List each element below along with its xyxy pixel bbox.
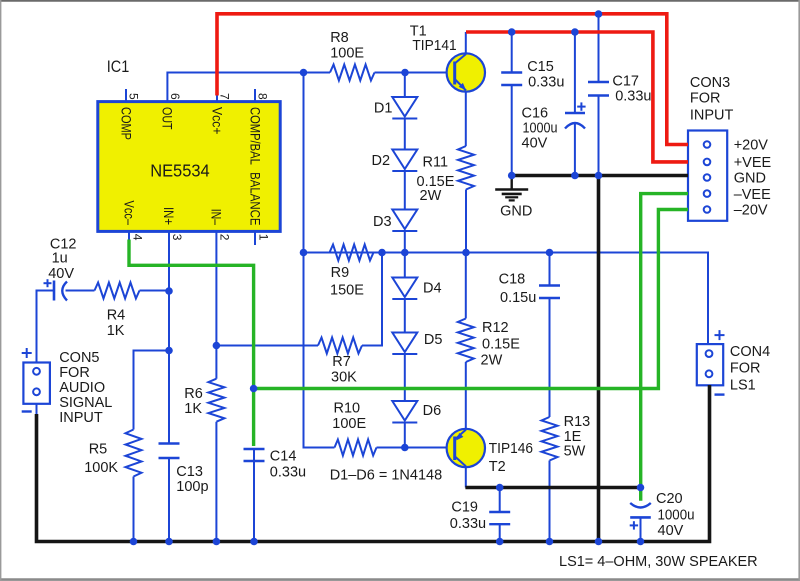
- svg-text:R10: R10: [334, 401, 361, 417]
- wire output rail to R12: [465, 253, 467, 319]
- svg-text:T1: T1: [410, 23, 427, 39]
- resistor R7 30K: [318, 338, 362, 386]
- wire R12 to T2 emitter: [465, 362, 467, 429]
- wire bottom ground bus from CON5 to CON4: [37, 385, 710, 542]
- svg-text:+VEE: +VEE: [734, 155, 772, 171]
- wire CON5 minus stub: [36, 404, 38, 416]
- node C17 +20V junction: [595, 10, 603, 18]
- wire T1 emitter down to R11: [465, 91, 467, 147]
- svg-text:INPUT: INPUT: [690, 108, 734, 124]
- wire T1 base node to D1: [404, 73, 406, 98]
- svg-text:40V: 40V: [522, 136, 548, 152]
- node rail left junction: [300, 249, 308, 257]
- wire D4 to D5: [404, 299, 406, 333]
- node C19 -VEE junction: [496, 484, 504, 492]
- capacitor C15 0.33u: [501, 59, 564, 91]
- wire R7 up to output rail: [362, 253, 382, 346]
- svg-text:CON5: CON5: [59, 350, 99, 366]
- wire R5 branch from pin3 node: [134, 351, 170, 430]
- node R7 rail junction: [378, 249, 386, 257]
- frame: [0, 0, 800, 2]
- svg-text:LS1= 4–OHM, 30W SPEAKER: LS1= 4–OHM, 30W SPEAKER: [559, 554, 758, 570]
- wire C15 to ground node: [511, 85, 513, 176]
- wire ground bus from C15 node to CON3 GND: [512, 174, 688, 178]
- wire R5 to bottom bus: [133, 477, 135, 542]
- resistor R11 0.15E 2W: [417, 146, 475, 204]
- svg-text:IC1: IC1: [107, 57, 130, 76]
- wire D2 to D3: [404, 171, 406, 210]
- svg-text:R8: R8: [330, 30, 349, 46]
- resistor R6 1K: [184, 379, 224, 422]
- svg-text:100E: 100E: [332, 416, 366, 432]
- svg-text:100E: 100E: [330, 46, 364, 62]
- wire C16 to ground bus: [574, 123, 576, 176]
- node R5 bottom bus junction: [130, 538, 138, 546]
- ground GND symbol: [495, 176, 532, 220]
- wire green -VEE from CON3 down to C20: [641, 194, 688, 501]
- wire D1 to D2: [404, 119, 406, 150]
- wire R7 branch from pin2 node: [216, 345, 318, 347]
- svg-text:0.33u: 0.33u: [615, 89, 651, 105]
- node T2 base junction: [401, 444, 409, 452]
- wire C14 to bottom bus: [253, 449, 255, 542]
- wire pin1 stub: [254, 231, 256, 245]
- node C16 ground junction: [571, 172, 579, 180]
- wire pin2 down to R6: [215, 231, 217, 378]
- svg-text:C18: C18: [499, 272, 526, 288]
- svg-text:D6: D6: [423, 403, 442, 419]
- svg-text:AUDIO: AUDIO: [59, 380, 105, 396]
- svg-text:5: 5: [127, 93, 141, 100]
- svg-text:GND: GND: [734, 171, 766, 187]
- capacitor C18 0.15u: [499, 272, 560, 307]
- wire ground vertical from GND bus down to bottom bus: [597, 174, 601, 542]
- wire pin4 stub: [128, 231, 130, 241]
- svg-text:+20V: +20V: [734, 138, 769, 154]
- connector CON4 speaker output: [697, 330, 770, 395]
- wire C18 to R13: [549, 298, 551, 417]
- svg-text:TIP141: TIP141: [412, 38, 456, 54]
- svg-text:NE5534: NE5534: [150, 161, 210, 181]
- diode D1: [374, 97, 417, 119]
- connector CON3 power input: [688, 75, 772, 221]
- wire C20 to bottom bus: [640, 517, 642, 541]
- node R4 pin3 junction: [165, 287, 173, 295]
- resistor R13 1E 5W: [542, 414, 591, 461]
- svg-text:CON4: CON4: [730, 344, 770, 360]
- node R6 bottom bus junction: [213, 538, 221, 546]
- svg-text:R7: R7: [332, 354, 351, 370]
- wire D6 to T2 base node: [404, 423, 406, 448]
- svg-text:8: 8: [256, 93, 270, 100]
- svg-text:R4: R4: [107, 308, 126, 324]
- diode D5: [392, 332, 442, 354]
- svg-text:C15: C15: [527, 59, 554, 75]
- svg-text:C20: C20: [656, 491, 683, 507]
- node C19 bottom bus junction: [496, 538, 504, 546]
- svg-text:100p: 100p: [176, 479, 208, 495]
- svg-text:IN+: IN+: [161, 207, 176, 225]
- svg-text:1K: 1K: [107, 323, 125, 339]
- node C15 ground junction: [508, 172, 516, 180]
- svg-text:0.15u: 0.15u: [500, 290, 536, 306]
- transistor T1 TIP141: [410, 23, 485, 91]
- capacitor C20 1000u 40V: [630, 491, 695, 539]
- svg-text:C13: C13: [176, 464, 203, 480]
- svg-text:GND: GND: [500, 204, 532, 220]
- wire T1 collector up to +VEE: [465, 32, 467, 54]
- node ground bottom bus junction: [595, 538, 603, 546]
- wire D5 to D6: [404, 354, 406, 401]
- svg-text:D4: D4: [423, 281, 442, 297]
- wire C17 to ground bus: [598, 96, 600, 176]
- wire D3 to output rail: [404, 231, 406, 253]
- svg-text:IN–: IN–: [209, 209, 224, 226]
- svg-text:FOR: FOR: [730, 360, 761, 376]
- svg-text:TIP146: TIP146: [489, 441, 533, 457]
- svg-text:2W: 2W: [481, 353, 503, 369]
- wire +20V node down to C17: [598, 14, 600, 82]
- svg-text:OUT: OUT: [160, 107, 175, 130]
- wire C12 to R4: [66, 290, 95, 292]
- svg-text:Vcc–: Vcc–: [121, 201, 136, 226]
- svg-text:0.33u: 0.33u: [450, 516, 486, 532]
- svg-text:FOR: FOR: [690, 91, 721, 107]
- svg-text:0.33u: 0.33u: [270, 465, 306, 481]
- wire pin5 stub: [125, 89, 127, 102]
- svg-text:R11: R11: [423, 155, 449, 171]
- node C15 +VEE junction: [508, 28, 516, 36]
- node R13 bottom bus junction: [546, 538, 554, 546]
- svg-text:40V: 40V: [48, 266, 74, 282]
- svg-text:LS1: LS1: [730, 378, 756, 394]
- svg-text:1u: 1u: [52, 251, 68, 267]
- node T1 base junction: [401, 69, 409, 77]
- svg-text:FOR: FOR: [59, 365, 90, 381]
- op-amp IC1 NE5534: [98, 57, 280, 241]
- svg-text:1000u: 1000u: [658, 508, 695, 524]
- wire C19 to bottom bus: [499, 524, 501, 541]
- svg-text:C19: C19: [451, 500, 478, 516]
- resistor R10 100E: [332, 401, 376, 456]
- node R11 rail junction: [462, 249, 470, 257]
- svg-text:–20V: –20V: [734, 203, 768, 219]
- transistor T2 TIP146: [447, 429, 533, 475]
- svg-text:–VEE: –VEE: [734, 187, 771, 203]
- svg-text:7: 7: [218, 93, 232, 100]
- svg-text:150E: 150E: [330, 283, 364, 299]
- resistor R8 100E: [330, 30, 375, 81]
- svg-text:C14: C14: [270, 449, 297, 465]
- node R7 branch junction: [213, 342, 221, 350]
- wire green -20V rail horizontal: [254, 210, 688, 389]
- wire red +VEE from T1 collector to CON3: [466, 32, 688, 162]
- resistor R5 100K: [84, 430, 141, 477]
- svg-text:SIGNAL: SIGNAL: [59, 395, 112, 411]
- svg-text:R13: R13: [564, 414, 591, 430]
- svg-text:2: 2: [218, 234, 232, 241]
- svg-text:40V: 40V: [658, 523, 684, 539]
- svg-text:D1: D1: [374, 101, 393, 117]
- wire R8 right to T1 base: [375, 72, 455, 74]
- svg-text:D2: D2: [372, 153, 391, 169]
- diode D4: [392, 278, 441, 300]
- diode D2: [372, 150, 418, 172]
- wire R4 to pin3 node: [140, 290, 170, 292]
- wire R13 to bottom bus: [549, 461, 551, 542]
- node diode chain rail junction: [401, 249, 409, 257]
- node ground bus vertical junction: [595, 172, 603, 180]
- resistor R12 0.15E 2W: [458, 319, 520, 369]
- wire output rail to D4: [404, 253, 406, 278]
- svg-text:BALANCE: BALANCE: [247, 172, 262, 225]
- wire R11 to output rail: [465, 190, 467, 253]
- wire C13 to bottom bus: [168, 458, 170, 542]
- svg-text:COMP/BAL: COMP/BAL: [247, 107, 262, 165]
- svg-text:3: 3: [170, 234, 184, 241]
- svg-text:COMP: COMP: [118, 107, 133, 140]
- wire pin7 stub: [216, 94, 218, 102]
- node C18 rail junction: [546, 249, 554, 257]
- node C20 bottom bus junction: [637, 538, 645, 546]
- wire pin3 down to C13: [168, 231, 170, 443]
- svg-text:C17: C17: [612, 74, 639, 90]
- wire -VEE line from T2 collector to C20: [465, 486, 640, 490]
- capacitor C14 0.33u: [244, 449, 307, 481]
- node R5 branch junction: [165, 347, 173, 355]
- capacitor C17 0.33u: [588, 74, 651, 105]
- svg-text:4: 4: [130, 234, 144, 241]
- wire output rail down to C18: [549, 253, 551, 286]
- capacitor C16 1000u 40V: [522, 102, 586, 151]
- svg-text:6: 6: [168, 93, 182, 100]
- wire R6 to bottom bus: [215, 422, 217, 542]
- svg-text:5W: 5W: [564, 444, 586, 460]
- svg-text:1: 1: [256, 234, 270, 241]
- node C16 +VEE junction: [571, 28, 579, 36]
- node C20 -VEE junction: [637, 484, 645, 492]
- svg-text:CON3: CON3: [690, 75, 730, 91]
- svg-text:R9: R9: [331, 265, 350, 281]
- wire output rail to CON4 plus: [304, 253, 709, 345]
- svg-text:D1–D6 = 1N4148: D1–D6 = 1N4148: [330, 468, 442, 484]
- svg-text:Vcc+: Vcc+: [209, 107, 224, 135]
- connector CON5 audio input: [22, 348, 113, 426]
- svg-text:R6: R6: [184, 386, 203, 402]
- node C13 bottom bus junction: [165, 538, 173, 546]
- svg-text:30K: 30K: [331, 370, 357, 386]
- svg-text:2W: 2W: [420, 188, 442, 204]
- svg-text:R12: R12: [482, 320, 509, 336]
- svg-text:T2: T2: [489, 459, 506, 475]
- capacitor C12 1u 40V: [44, 237, 77, 301]
- resistor R9 150E: [330, 245, 374, 299]
- svg-text:100K: 100K: [84, 460, 118, 476]
- node C14 bottom bus junction: [250, 538, 258, 546]
- wire pin8 stub: [254, 89, 256, 102]
- wire pin6 OUT up and right to R8: [167, 73, 330, 102]
- wire R10 to T2 base: [377, 447, 455, 449]
- svg-text:D5: D5: [424, 332, 443, 348]
- diode D3: [373, 210, 417, 232]
- wire +VEE node down to C16: [574, 32, 576, 113]
- svg-text:R5: R5: [89, 442, 108, 458]
- capacitor C19 0.33u: [450, 500, 510, 533]
- svg-text:0.15E: 0.15E: [482, 337, 520, 353]
- capacitor C13 100p: [159, 444, 209, 496]
- svg-text:C16: C16: [522, 106, 549, 122]
- resistor R4 1K: [95, 283, 140, 340]
- svg-text:INPUT: INPUT: [59, 410, 103, 426]
- svg-text:0.33u: 0.33u: [528, 75, 564, 91]
- svg-text:1K: 1K: [184, 401, 202, 417]
- svg-text:1000u: 1000u: [523, 121, 558, 137]
- wire +VEE node down to C15: [511, 32, 513, 73]
- node R8 left junction: [300, 69, 308, 77]
- wire long vertical from R8 node down to R10: [304, 73, 335, 448]
- wire green pin4 Vcc- to C14 and -20V branch: [129, 240, 254, 447]
- wire CON5 plus up to C12: [37, 291, 55, 363]
- wire T2 collector down to -VEE line: [465, 467, 467, 488]
- node green -20V junction: [250, 385, 258, 393]
- wire -VEE line down to C19: [499, 488, 501, 513]
- svg-text:D3: D3: [373, 214, 392, 230]
- diode D6: [392, 401, 441, 423]
- wire red +20V from pin7 to CON3: [217, 14, 688, 145]
